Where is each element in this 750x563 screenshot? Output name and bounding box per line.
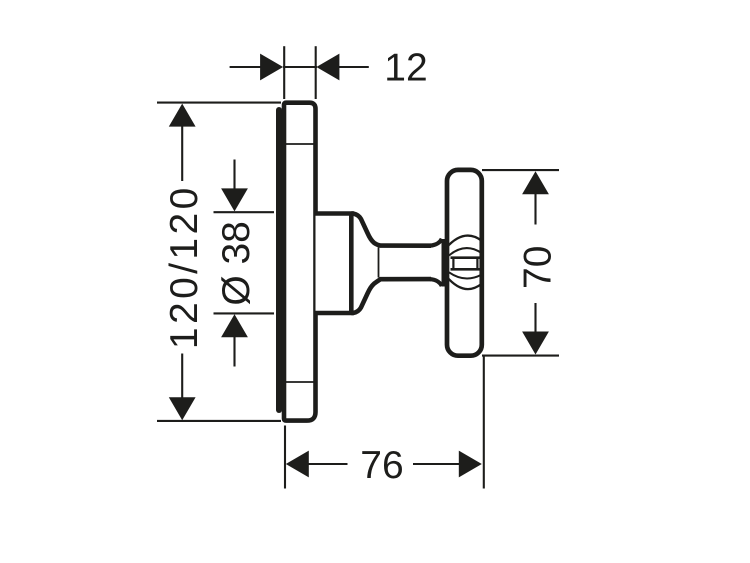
svg-text:70: 70 <box>517 246 560 289</box>
svg-text:12: 12 <box>384 47 427 90</box>
svg-text:Ø 38: Ø 38 <box>215 221 258 306</box>
svg-text:120/120: 120/120 <box>163 184 206 349</box>
svg-text:76: 76 <box>360 444 403 487</box>
